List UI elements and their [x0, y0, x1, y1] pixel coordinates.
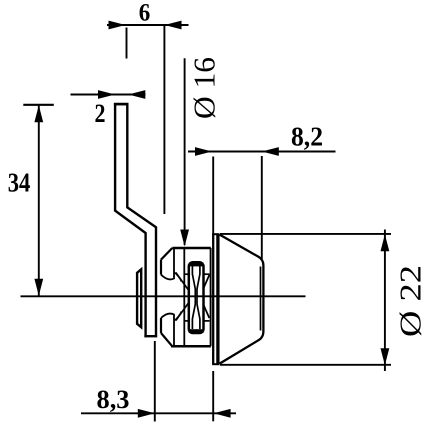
dimension 8,3 line — [81, 412, 236, 414]
housing facet curve lower right — [174, 312, 182, 322]
spring diagonal top right — [204, 275, 210, 288]
spring plug top cap — [189, 263, 204, 267]
diameter 22 bottom extension line — [220, 364, 391, 366]
dimension 6 line — [107, 24, 189, 26]
diameter 22 dimension line — [384, 230, 386, 372]
cam lever inner edge — [127, 103, 156, 337]
spring plug body — [189, 262, 204, 333]
dimension 8,2 right arrow — [262, 147, 279, 156]
cup back face — [212, 234, 214, 365]
dimension 6 left arrow — [109, 21, 126, 30]
housing neck left face upper — [160, 260, 162, 275]
spring diagonal top left — [176, 273, 189, 291]
extension line right of 8,3 — [212, 371, 214, 421]
interior seam upper right — [204, 273, 210, 275]
spring plug hourglass left — [192, 266, 195, 329]
diameter 22 up arrow — [381, 234, 390, 251]
housing neck top edge — [172, 247, 211, 250]
spring diagonal bottom left — [176, 303, 189, 321]
housing junction line — [210, 248, 212, 346]
housing facet curve upper right — [174, 272, 182, 282]
spring plug bottom cap — [189, 329, 204, 333]
svg-text:34: 34 — [8, 167, 31, 197]
extension line left of 8,3 — [154, 341, 156, 422]
housing facet arc upper — [161, 248, 174, 279]
svg-text:Ø 16: Ø 16 — [187, 57, 222, 119]
dimension 34 up arrow — [34, 105, 43, 122]
svg-text:Ø 22: Ø 22 — [393, 265, 425, 337]
diameter 22 top extension line — [220, 233, 391, 235]
washer plate — [137, 269, 141, 327]
dimension 34 line — [38, 105, 40, 296]
svg-text:2: 2 — [95, 99, 106, 128]
extension line left of 6 — [126, 28, 128, 59]
diameter 22 down arrow — [381, 348, 390, 365]
spring diagonal bottom right — [204, 305, 210, 318]
dimension 34 top tick — [23, 104, 54, 106]
cup cone and barrel outline — [220, 235, 264, 364]
extension line right of 8,2 — [261, 156, 263, 259]
cup front face — [216, 234, 219, 365]
dimension 2 left arrow — [98, 90, 115, 99]
cam lever outer edge — [115, 103, 146, 337]
dimension 34 down arrow — [34, 279, 43, 296]
dimension 2 line — [71, 94, 146, 96]
dimension 8,3 right arrow — [214, 409, 231, 418]
housing facet arc lower — [161, 314, 174, 347]
center axis line — [21, 295, 306, 297]
spring plug hourglass right — [197, 266, 200, 329]
extension line 8,2 8,3 shared — [212, 157, 214, 234]
housing neck bottom edge — [171, 345, 211, 348]
cup bottom corner cap — [212, 363, 219, 365]
cup top corner cap — [212, 233, 219, 235]
dimension 6 right arrow — [165, 21, 182, 30]
diameter 16 leader line — [184, 58, 186, 245]
interior seam lower left — [184, 320, 189, 322]
dimension 8,3 left arrow — [138, 409, 155, 418]
housing neck bottom chamfer — [161, 333, 172, 346]
housing neck left face lower — [160, 318, 162, 333]
housing neck top chamfer — [161, 248, 172, 260]
diameter 16 down arrow — [180, 230, 189, 247]
dimension 2 right arrow — [128, 90, 145, 99]
cam lever bottom cap — [144, 335, 157, 337]
barrel inner line — [260, 267, 262, 331]
svg-text:6: 6 — [139, 0, 151, 27]
svg-text:8,3: 8,3 — [97, 385, 130, 414]
cam lever top cap — [114, 103, 129, 106]
svg-text:8,2: 8,2 — [291, 122, 323, 152]
extension line right of 6 — [163, 26, 165, 214]
interior seam lower right — [204, 320, 210, 322]
housing facet line — [183, 248, 185, 346]
interior seam upper left — [184, 273, 189, 275]
dimension 8,2 line — [188, 151, 336, 153]
dimension 8,2 left arrow — [195, 147, 212, 156]
